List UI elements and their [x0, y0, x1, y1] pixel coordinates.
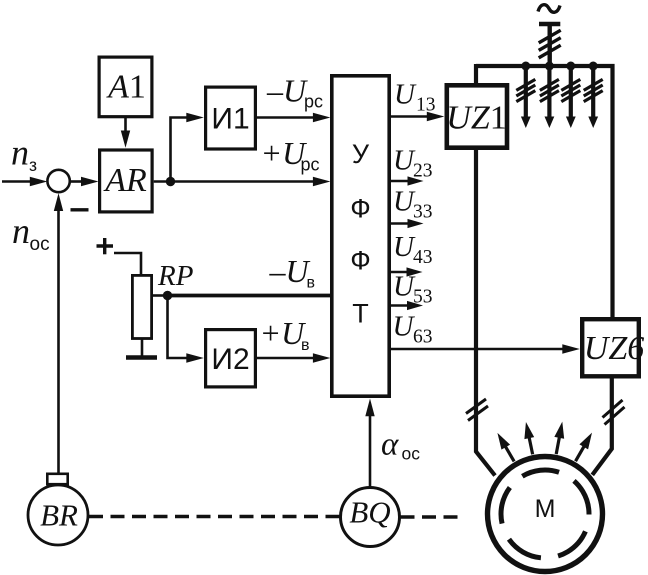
svg-text:M: M	[535, 495, 556, 523]
svg-text:23: 23	[413, 161, 433, 182]
svg-text:Т: Т	[352, 299, 369, 329]
svg-text:43: 43	[413, 247, 433, 268]
double slash on left feeder	[466, 399, 488, 421]
wire: UZ1 bottom feeder to motor	[476, 148, 495, 476]
motor rotor dashed circle	[485, 454, 606, 575]
svg-text:UZ1: UZ1	[446, 100, 506, 137]
label n_ос	[12, 211, 50, 255]
svg-text:рс: рс	[304, 92, 323, 112]
svg-text:–U: –U	[266, 73, 308, 109]
label αос	[381, 427, 420, 464]
node: bus dot 3	[566, 62, 575, 71]
svg-text:в: в	[301, 337, 310, 354]
motor fan arrow 1	[493, 430, 518, 464]
svg-text:ос: ос	[402, 444, 421, 464]
wire: U63 output to UZ6	[390, 344, 580, 353]
block UZ1	[446, 85, 507, 147]
label n_з	[11, 133, 37, 176]
label +Uрс	[261, 135, 320, 175]
label −Uв	[269, 253, 316, 292]
node: RP tap junction dot	[163, 291, 172, 300]
triple slash on supply drop	[539, 30, 561, 58]
svg-text:И1: И1	[211, 103, 249, 136]
supply feeder arrow 3 with triple slash	[561, 66, 580, 128]
plus sign at RP supply	[97, 238, 114, 254]
svg-text:53: 53	[413, 287, 433, 308]
svg-text:13: 13	[416, 95, 436, 116]
label U43	[393, 231, 433, 268]
svg-text:–U: –U	[269, 253, 311, 289]
wire: U43 output arrow	[390, 267, 423, 276]
sensor BQ circle	[341, 488, 400, 547]
svg-text:рс: рс	[301, 155, 320, 175]
sensor BR circle	[28, 485, 88, 545]
wire: summing junction to AR	[70, 177, 99, 186]
motor fan arrow 2	[521, 421, 537, 455]
resistor RP	[132, 275, 151, 338]
svg-text:Ф: Ф	[350, 245, 371, 275]
svg-text:BR: BR	[40, 498, 78, 533]
wire: BQ up to УФФТ (αос feedback)	[365, 399, 374, 488]
block И1	[206, 87, 256, 149]
block A1	[99, 57, 152, 117]
wire: RP tap	[153, 294, 168, 297]
supply terminal bar	[539, 22, 560, 27]
svg-text:У: У	[352, 139, 370, 169]
sensor BR terminal box	[47, 474, 67, 484]
wire: feedback vertical from BR terminal up into summing junction	[54, 193, 63, 472]
label U23	[393, 145, 433, 182]
node: bus dot 4	[589, 62, 598, 71]
wire: U33 output arrow	[390, 219, 424, 228]
wire: И2 output to УФФТ (+Uв)	[257, 353, 330, 362]
svg-text:BQ: BQ	[349, 495, 390, 530]
svg-text:AR: AR	[103, 162, 147, 199]
wire: tap down to И2 input	[168, 296, 204, 363]
motor M stator circle	[488, 457, 603, 572]
wire: U13 output to UZ1	[390, 112, 444, 121]
svg-text:U: U	[394, 79, 417, 111]
block UZ6	[582, 319, 644, 376]
label U33	[393, 186, 433, 223]
label U13	[394, 79, 436, 116]
supply feeder arrow 2 with triple slash	[540, 66, 559, 128]
svg-text:ос: ос	[30, 234, 50, 255]
svg-text:в: в	[307, 275, 316, 292]
node: AR output junction dot	[166, 177, 175, 186]
block УФФТ	[332, 76, 389, 396]
svg-text:n: n	[12, 211, 30, 251]
supply feeder arrow 1 with triple slash	[516, 66, 535, 128]
label +Uв	[260, 315, 310, 354]
block И2	[206, 330, 256, 387]
wire: bus to UZ1 top	[474, 64, 478, 85]
dashed link BR to BQ	[89, 515, 340, 518]
minus sign at summing junction	[71, 208, 89, 211]
ground below RP	[126, 339, 157, 358]
block AR	[100, 150, 153, 212]
svg-text:n: n	[11, 133, 29, 173]
wire: И1 output to УФФТ (−Uрс)	[257, 113, 330, 122]
wire: UZ6 bottom feeder to motor	[592, 377, 612, 475]
dashed link BQ to motor	[401, 515, 460, 518]
wire: AR output to УФФТ (+Uрс)	[154, 177, 331, 186]
wire: tap to УФФТ (−Uв)	[168, 294, 332, 298]
wire: n_з input arrow into summing junction	[2, 177, 47, 186]
label U53	[393, 271, 433, 308]
svg-text:Ф: Ф	[350, 194, 371, 224]
wire: supply drop line	[548, 26, 552, 68]
svg-text:α: α	[381, 427, 399, 463]
motor fan arrow 3	[551, 421, 567, 455]
AC supply tilde	[538, 5, 560, 13]
svg-text:RP: RP	[157, 260, 193, 292]
wire: junction up and to И1 input	[171, 113, 204, 182]
double slash on right feeder	[603, 400, 625, 425]
svg-text:63: 63	[413, 327, 433, 348]
supply feeder arrow 4 with triple slash	[584, 66, 603, 128]
svg-text:UZ6: UZ6	[584, 330, 644, 367]
wire: A1 to AR arrow	[121, 118, 130, 148]
label U63	[393, 311, 433, 348]
node: bus dot 1	[521, 62, 530, 71]
svg-text:A1: A1	[106, 69, 146, 106]
svg-text:з: з	[29, 155, 37, 175]
motor fan arrow 4	[571, 430, 596, 464]
svg-text:+U: +U	[260, 315, 307, 351]
wire: plus to RP top	[114, 253, 141, 275]
svg-text:И2: И2	[211, 343, 249, 376]
label −Uрс	[266, 73, 323, 112]
wire: U53 output arrow	[390, 301, 423, 310]
bus wire: horizontal three-phase bus and right drop to UZ6	[476, 66, 613, 317]
node: bus dot 2	[545, 62, 554, 71]
node: summing junction circle	[47, 170, 69, 192]
wire: U23 output arrow	[390, 176, 424, 185]
svg-text:33: 33	[413, 202, 433, 223]
